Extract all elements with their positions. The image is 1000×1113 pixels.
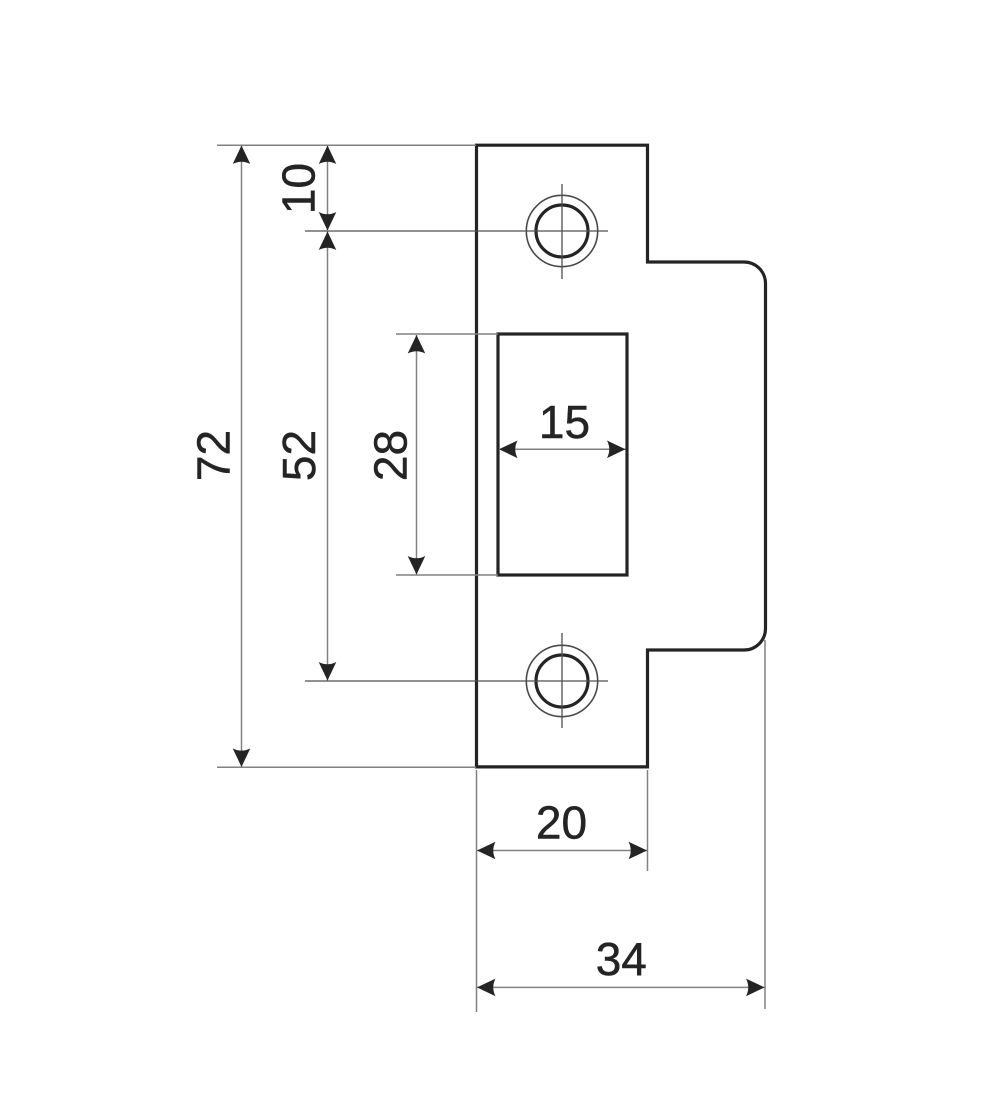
extension line : plate right lower (647, 770, 649, 871)
screw hole bottom : inner circle (536, 655, 588, 707)
dimension 15 : line (499, 448, 626, 450)
extension line : tab right lower (764, 640, 766, 1009)
plate outline (477, 145, 766, 767)
svg-text:15: 15 (539, 396, 590, 448)
dimension 72 : line (241, 146, 243, 767)
svg-text:20: 20 (536, 797, 587, 849)
svg-text:52: 52 (273, 430, 325, 481)
latch cutout (498, 334, 627, 575)
dimension 20 : right arrow (629, 842, 648, 860)
svg-text:28: 28 (364, 430, 416, 481)
screw hole top : inner circle (536, 205, 588, 257)
dimension 15 : left arrow (499, 441, 518, 459)
svg-text:10: 10 (273, 163, 325, 214)
screw hole bottom : centerline horizontal (305, 680, 608, 682)
dimension 72 : top arrow (233, 146, 251, 165)
dimension 28 : line (416, 335, 418, 575)
dimension 34 : line (477, 986, 765, 988)
dimension 52 : bottom arrow (319, 662, 337, 681)
svg-text:34: 34 (596, 933, 647, 985)
dimension 10 : top arrow (319, 146, 337, 165)
extension line : cutout top (396, 333, 498, 335)
dimension 28 : top arrow (408, 335, 426, 354)
dimension 15 : right arrow (607, 441, 626, 459)
dimension 34 : left arrow (477, 979, 496, 997)
extension line : plate left lower (476, 770, 478, 1012)
dimension 72 : bottom arrow (233, 748, 251, 767)
screw hole bottom : centerline vertical (561, 633, 563, 728)
screw hole top : centerline vertical (561, 184, 563, 279)
dimension 52 : top arrow (319, 232, 337, 251)
screw hole bottom : outer circle (526, 645, 597, 716)
screw hole top : centerline horizontal (305, 230, 608, 232)
extension line : cutout bottom (396, 574, 498, 576)
dimension 10 : line (327, 146, 329, 231)
dimension 28 : bottom arrow (408, 556, 426, 575)
dimension 20 : line (477, 850, 647, 852)
dimension 20 : left arrow (477, 842, 496, 860)
extension line : plate bottom (217, 766, 476, 768)
extension line : plate top (217, 144, 476, 146)
svg-text:72: 72 (188, 430, 240, 481)
dimension 10 : bottom arrow (319, 212, 337, 231)
dimension 34 : right arrow (746, 979, 765, 997)
dimension 52 : line (327, 232, 329, 681)
screw hole top : outer circle (526, 195, 597, 266)
